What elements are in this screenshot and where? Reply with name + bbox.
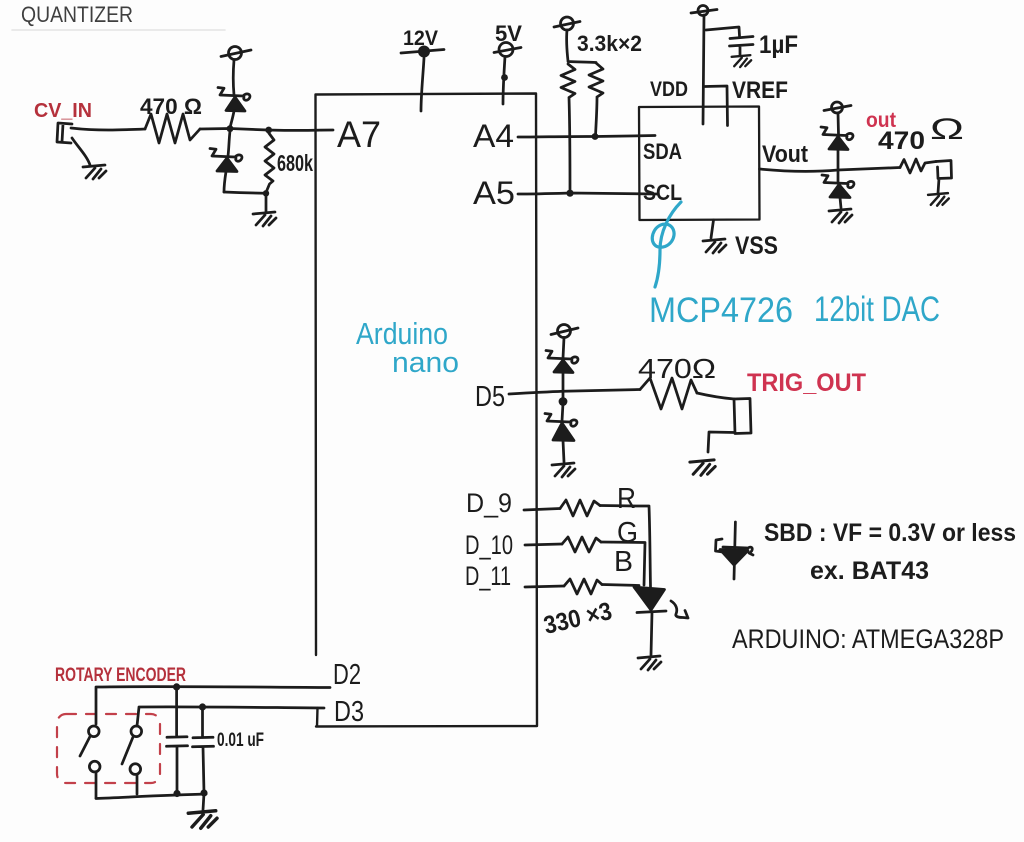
op-amp U1 Arduino nano outline box bbox=[316, 94, 538, 727]
jack J1 CV input bbox=[57, 123, 90, 165]
resistor R1 470ohm bbox=[145, 114, 200, 143]
diode D6 (trig clamp down) bbox=[545, 403, 577, 462]
wire rail to ground bbox=[265, 193, 268, 212]
wire terminal to pullups bbox=[567, 30, 596, 63]
label out (red) bbox=[866, 109, 896, 132]
svg-text:VREF: VREF bbox=[732, 77, 788, 104]
diode D5 (trig clamp up) bbox=[546, 338, 578, 401]
power terminal (D5 clamp) bbox=[551, 325, 578, 338]
wire 5V to box bbox=[503, 57, 505, 105]
5V wire blob dot bbox=[501, 74, 508, 81]
junction dot D3/C3 bbox=[199, 703, 206, 710]
label G bbox=[617, 517, 638, 549]
wire VSS to ground bbox=[711, 220, 714, 238]
svg-text:D_10: D_10 bbox=[465, 530, 513, 560]
12V supply label bbox=[403, 27, 438, 50]
ground (trig clamp) bbox=[552, 463, 575, 477]
LED1 RGB led bbox=[634, 587, 666, 655]
node C junction dot (rail) bbox=[263, 190, 269, 196]
svg-text:Vout: Vout bbox=[762, 141, 808, 168]
label Arduino (cyan) bbox=[356, 316, 448, 351]
junction dot (D5 node) bbox=[559, 397, 568, 406]
pin label VSS bbox=[735, 232, 778, 260]
capacitor C2 0.01uF bbox=[167, 687, 188, 794]
svg-text:D_9: D_9 bbox=[466, 488, 512, 518]
node A junction dot bbox=[227, 125, 234, 132]
wire Vout bbox=[760, 168, 901, 172]
capacitor C3 0.01uF bbox=[193, 707, 214, 793]
rotary encoder dashed outline bbox=[57, 714, 160, 783]
ground (rotary rail) bbox=[188, 811, 217, 829]
12V node dot with bar bbox=[401, 46, 444, 58]
ground (clamp rail) bbox=[253, 212, 276, 226]
pin label SDA bbox=[643, 139, 682, 164]
wire CV jack to R1 bbox=[71, 128, 145, 130]
svg-text:VDD: VDD bbox=[650, 78, 688, 101]
label ohm (R5) bbox=[930, 113, 964, 146]
junction dot C2 rail bbox=[173, 790, 180, 797]
LED arrow bbox=[671, 601, 688, 618]
label TRIG_OUT (red) bbox=[747, 369, 866, 397]
ground (VSS) bbox=[703, 239, 726, 253]
wire VREF bracket bbox=[705, 86, 728, 126]
wire D10 to R8 bbox=[525, 544, 562, 545]
label 470 ohm (R1) bbox=[140, 94, 202, 119]
label 470 (R5) bbox=[878, 127, 925, 155]
swoosh 6 (cyan) bbox=[652, 202, 681, 287]
wire A4 to SDA bbox=[518, 136, 655, 138]
label nano (cyan) bbox=[392, 347, 459, 379]
svg-text:ex. BAT43: ex. BAT43 bbox=[810, 557, 929, 585]
ground (out jack) bbox=[928, 193, 949, 206]
pin label D2 bbox=[333, 659, 361, 691]
svg-text:SDA: SDA bbox=[643, 139, 682, 164]
pin label D_10 bbox=[465, 530, 513, 560]
resistor R2 680k bbox=[265, 133, 274, 193]
pin label VDD bbox=[650, 78, 688, 101]
pin label SCL bbox=[643, 180, 682, 205]
svg-text:Ω: Ω bbox=[930, 113, 964, 146]
svg-text:470: 470 bbox=[878, 127, 925, 155]
title QUANTIZER bbox=[12, 2, 225, 30]
pin label A5 bbox=[473, 175, 515, 211]
pin label D3 bbox=[334, 696, 364, 728]
label 1uF (C1) bbox=[759, 31, 798, 59]
svg-text:D2: D2 bbox=[333, 659, 361, 691]
ground (LED) bbox=[638, 656, 661, 670]
wire R6 to jack bbox=[697, 393, 734, 399]
wire D3 net bbox=[137, 707, 324, 726]
svg-text:680k: 680k bbox=[277, 150, 313, 176]
svg-text:MCP4726: MCP4726 bbox=[649, 291, 793, 330]
svg-text:3.3k×2: 3.3k×2 bbox=[577, 31, 642, 56]
junction dot SCL pullup bbox=[566, 190, 573, 197]
svg-text:12V: 12V bbox=[403, 27, 438, 50]
resistor R5 470ohm out bbox=[900, 159, 936, 173]
label 0.01uF bbox=[217, 730, 264, 751]
pin label Vout bbox=[762, 141, 808, 168]
resistor R9 330 (B) bbox=[564, 579, 602, 594]
ground (trig jack) bbox=[690, 460, 715, 475]
svg-text:SCL: SCL bbox=[643, 180, 682, 205]
node B junction dot bbox=[265, 127, 272, 134]
wire D9 to R7 bbox=[524, 509, 560, 511]
pin label A7 bbox=[337, 114, 381, 155]
pin label D_9 bbox=[466, 488, 512, 518]
wire cap branch bbox=[706, 27, 740, 36]
wire VDD pin bbox=[703, 15, 704, 124]
label 12bit DAC (cyan) bbox=[814, 290, 940, 329]
power terminal (VDD) bbox=[691, 6, 717, 16]
label 680k (R2) bbox=[277, 150, 313, 176]
label 3.3k x2 bbox=[577, 31, 642, 56]
wire rail to ground bbox=[203, 793, 204, 810]
svg-text:QUANTIZER: QUANTIZER bbox=[21, 2, 133, 27]
capacitor C1 1uF bbox=[730, 37, 754, 56]
svg-text:12bit DAC: 12bit DAC bbox=[814, 290, 940, 329]
resistor R6 470ohm trig bbox=[640, 378, 697, 409]
svg-text:nano: nano bbox=[392, 347, 459, 379]
wire 12V to box bbox=[421, 58, 424, 111]
label CV_IN bbox=[34, 100, 92, 122]
diode D2 (clamp down, schottky) bbox=[210, 131, 242, 192]
svg-text:0.01 uF: 0.01 uF bbox=[217, 730, 264, 751]
wire D2 bottom rail bbox=[224, 192, 265, 193]
pin label D_11 bbox=[465, 561, 511, 591]
pin label A4 bbox=[473, 118, 514, 154]
junction dot C3 rail bbox=[200, 789, 207, 796]
svg-text:SBD : VF = 0.3V or less: SBD : VF = 0.3V or less bbox=[764, 519, 1016, 547]
pin label D5 bbox=[475, 381, 505, 413]
switch SW1 (encoder A) bbox=[80, 726, 100, 798]
resistor R3 3.3k (SDA pullup right) bbox=[589, 63, 603, 136]
wire R8 to LED bbox=[601, 542, 645, 585]
note SBD VF bbox=[764, 519, 1016, 547]
svg-text:G: G bbox=[617, 517, 638, 549]
svg-text:1µF: 1µF bbox=[759, 31, 798, 59]
diode D1 (clamp up, schottky) bbox=[218, 88, 250, 129]
switch SW2 (encoder B) bbox=[122, 726, 142, 794]
wire D11 to R9 bbox=[525, 586, 564, 587]
note ARDUINO ATMEGA328P bbox=[732, 624, 1004, 654]
pin label VREF bbox=[732, 77, 788, 104]
svg-text:CV_IN: CV_IN bbox=[34, 100, 92, 122]
wire R1 to node A to A7 bbox=[200, 129, 333, 131]
svg-text:Arduino: Arduino bbox=[356, 316, 448, 351]
note ex BAT43 bbox=[810, 557, 929, 585]
label 330 x3 bbox=[541, 597, 615, 640]
svg-text:A5: A5 bbox=[473, 175, 515, 211]
ground (CV jack) bbox=[83, 165, 106, 179]
wire R7 to LED bbox=[600, 506, 651, 588]
diode D4 (Vout clamp down) bbox=[822, 175, 854, 208]
svg-text:ARDUINO: ATMEGA328P: ARDUINO: ATMEGA328P bbox=[732, 624, 1004, 654]
resistor R7 330 (R) bbox=[560, 500, 600, 516]
wire terminal to D1 bbox=[232, 60, 236, 95]
resistor R4 3.3k (SCL pullup left) bbox=[561, 64, 575, 193]
diode D3 (Vout clamp up) bbox=[821, 113, 853, 183]
label 470 ohm (R6) bbox=[638, 353, 716, 384]
svg-text:D_11: D_11 bbox=[465, 561, 511, 591]
op-amp U2 MCP4726 DAC box bbox=[639, 107, 760, 221]
svg-text:A4: A4 bbox=[473, 118, 514, 154]
svg-text:B: B bbox=[614, 546, 633, 578]
wire encoder common rail bbox=[96, 794, 206, 799]
wire A5 to SCL bbox=[518, 193, 657, 194]
resistor R8 330 (G) bbox=[562, 537, 601, 552]
jack J2 out bbox=[936, 161, 952, 194]
wire D2 net bbox=[96, 687, 330, 724]
svg-text:R: R bbox=[617, 483, 636, 515]
label B bbox=[614, 546, 633, 578]
5V terminal circle bbox=[494, 43, 521, 57]
power terminal (Vout clamp) bbox=[824, 102, 851, 113]
svg-text:A7: A7 bbox=[337, 114, 381, 155]
ground (Vout clamp) bbox=[829, 209, 852, 223]
label MCP4726 (cyan) bbox=[649, 291, 793, 330]
svg-text:470 Ω: 470 Ω bbox=[140, 94, 202, 119]
svg-text:D3: D3 bbox=[334, 696, 364, 728]
ground (C1) bbox=[732, 55, 752, 67]
jack J3 trig out bbox=[708, 399, 751, 453]
svg-text:D5: D5 bbox=[475, 381, 505, 413]
svg-text:TRIG_OUT: TRIG_OUT bbox=[747, 369, 866, 397]
svg-text:VSS: VSS bbox=[735, 232, 778, 260]
junction dot SDA pullup bbox=[592, 133, 599, 140]
svg-text:ROTARY ENCODER: ROTARY ENCODER bbox=[55, 665, 186, 686]
junction dot D2/C2 bbox=[173, 683, 180, 690]
wire R9 to LED bbox=[602, 585, 639, 586]
5V supply label bbox=[495, 21, 522, 46]
power terminal (I2C pullups) bbox=[554, 17, 580, 30]
label ROTARY ENCODER (red) bbox=[55, 665, 186, 686]
svg-text:330 ×3: 330 ×3 bbox=[541, 597, 615, 640]
wire D5 to R6 bbox=[509, 390, 640, 395]
label R bbox=[617, 483, 636, 515]
power terminal (clamp top) bbox=[221, 47, 251, 60]
diode symbol SBD note bbox=[716, 522, 754, 579]
